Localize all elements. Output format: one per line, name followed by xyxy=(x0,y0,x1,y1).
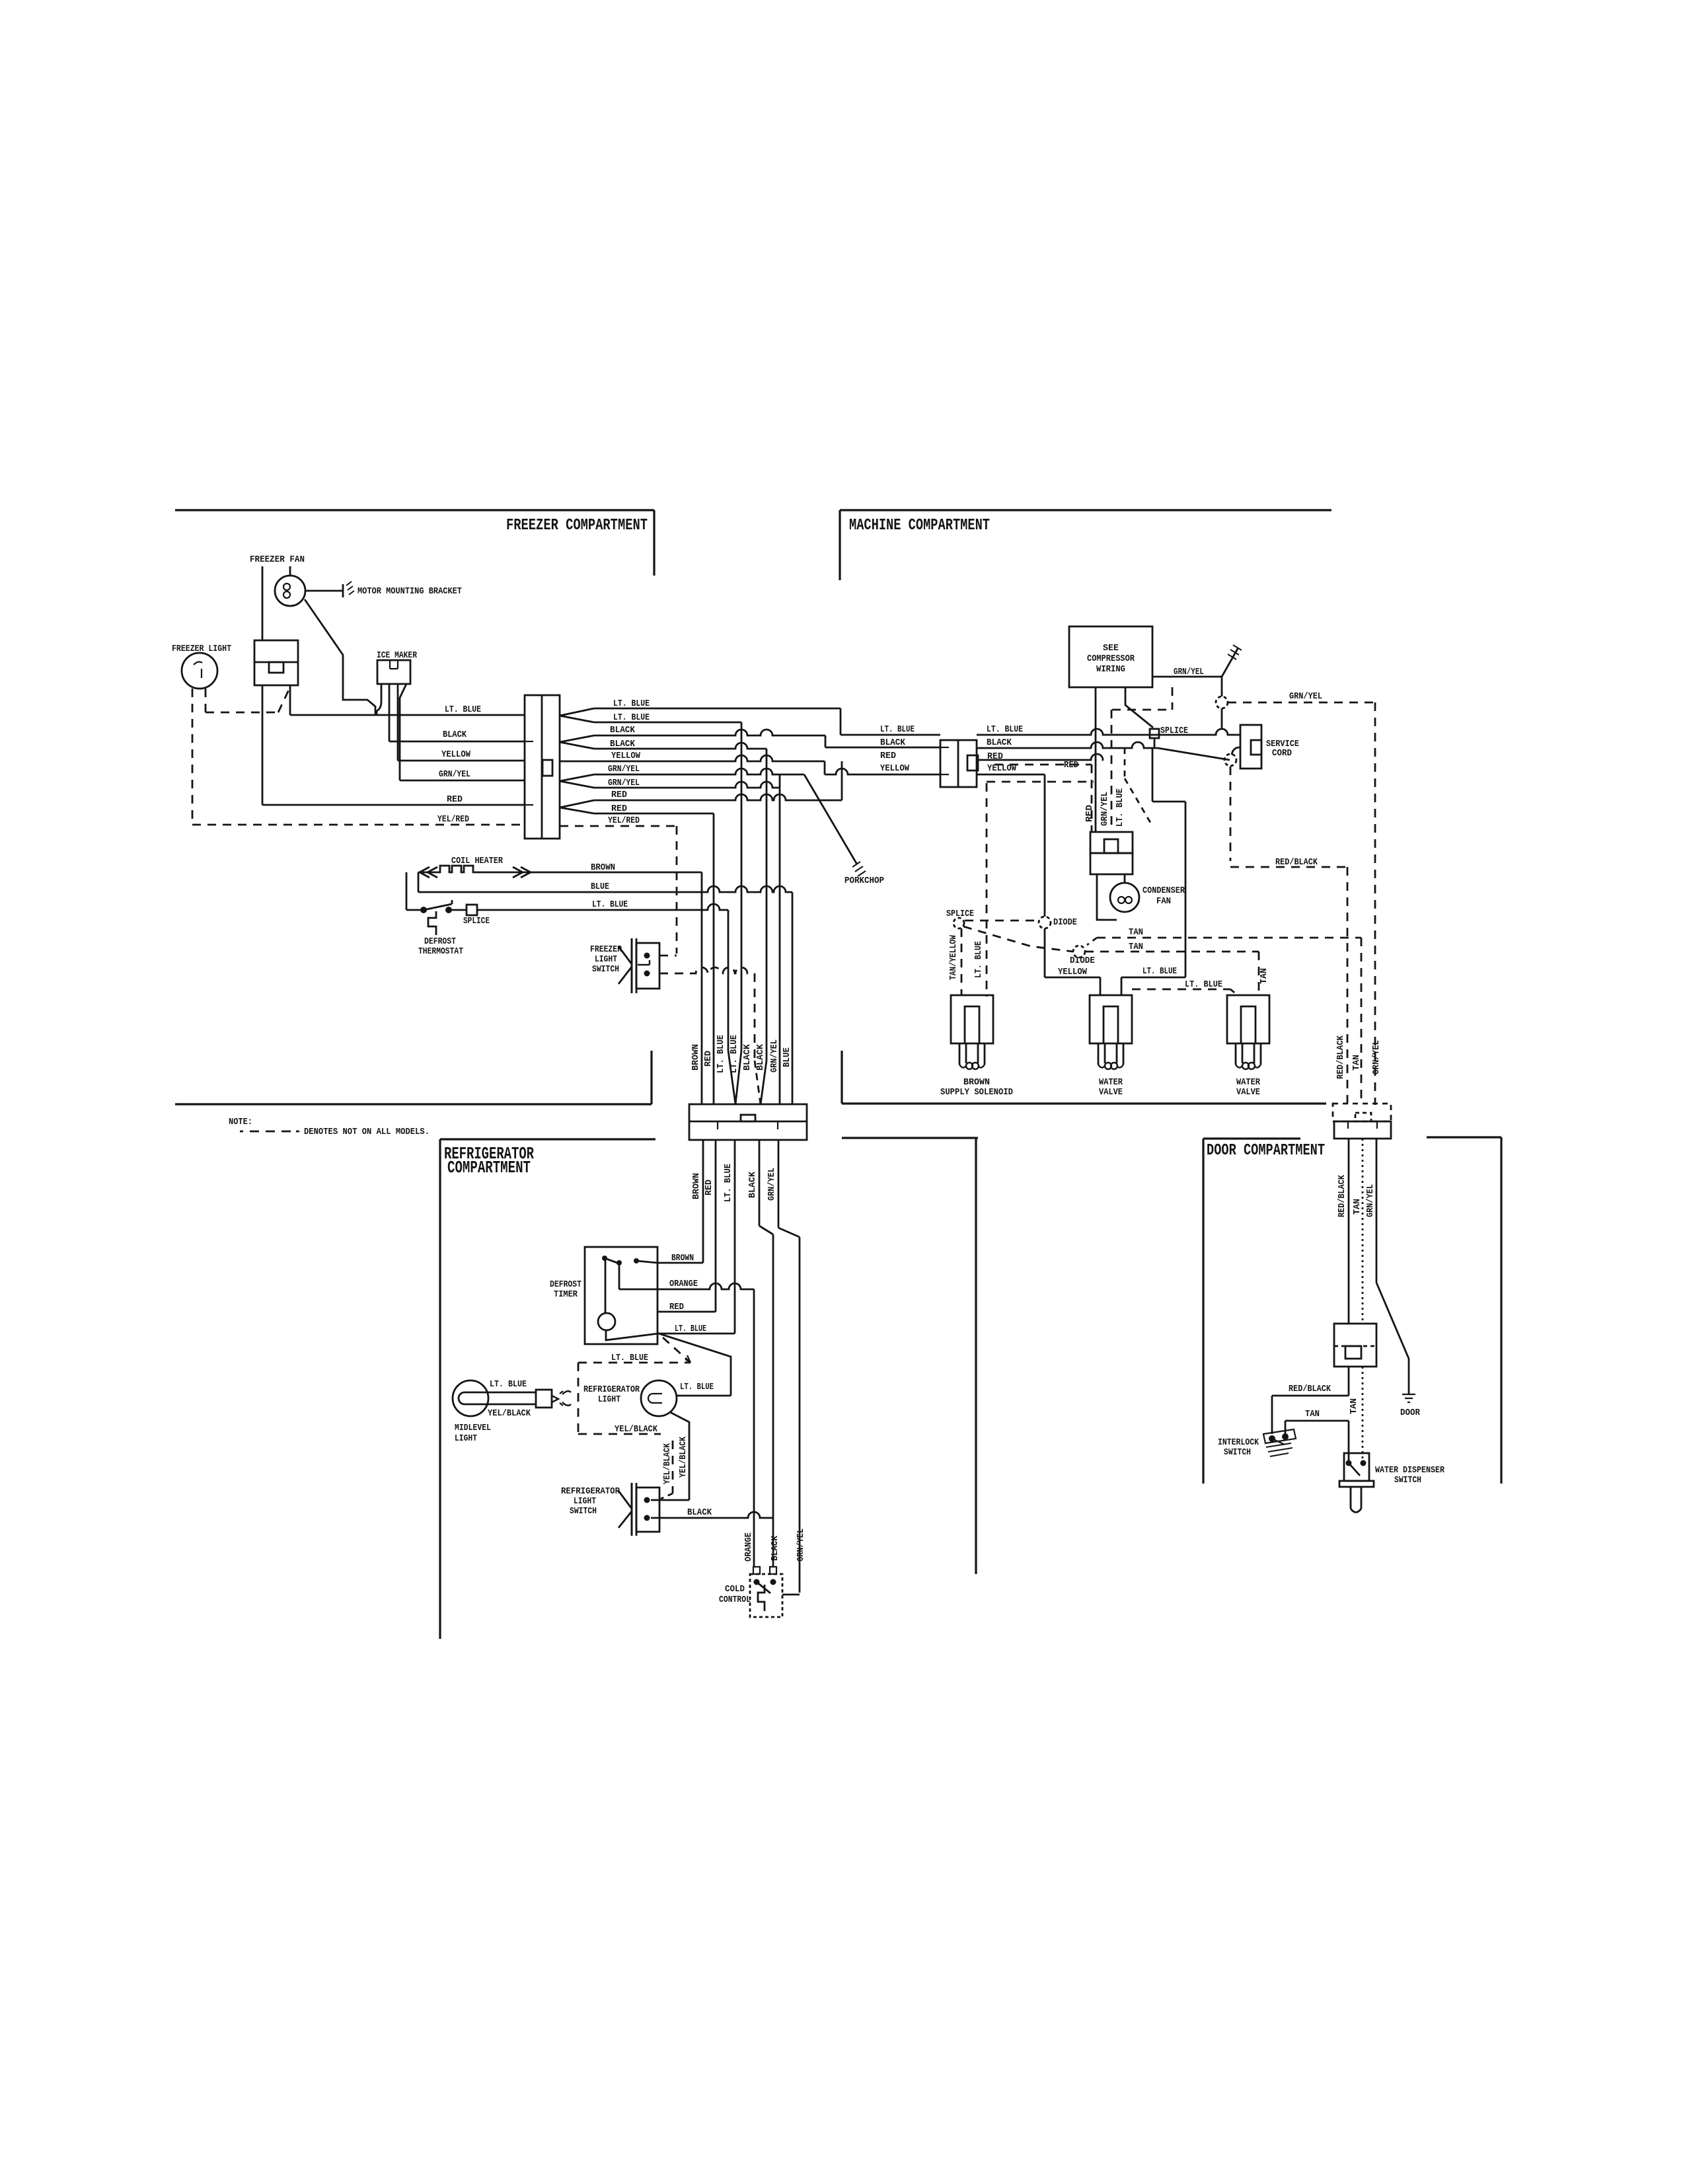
svg-text:CONTROL: CONTROL xyxy=(719,1595,751,1605)
svg-text:WATER: WATER xyxy=(1236,1077,1261,1088)
svg-text:INTERLOCK: INTERLOCK xyxy=(1218,1437,1259,1448)
svg-text:GRN/YEL: GRN/YEL xyxy=(1289,691,1322,702)
svg-text:TIMER: TIMER xyxy=(554,1289,578,1300)
svg-text:LIGHT: LIGHT xyxy=(574,1496,596,1507)
svg-text:GRN/YEL: GRN/YEL xyxy=(767,1168,777,1201)
svg-text:BROWN: BROWN xyxy=(691,1173,702,1199)
svg-text:LIGHT: LIGHT xyxy=(455,1433,477,1444)
svg-text:DOOR COMPARTMENT: DOOR COMPARTMENT xyxy=(1207,1142,1325,1160)
svg-text:BLACK: BLACK xyxy=(443,730,467,740)
svg-text:RED: RED xyxy=(611,790,627,800)
svg-text:LT. BLUE: LT. BLUE xyxy=(445,704,481,715)
svg-text:RED: RED xyxy=(880,751,896,761)
svg-text:BLACK: BLACK xyxy=(747,1171,758,1198)
svg-text:YEL/BLACK: YEL/BLACK xyxy=(662,1443,673,1484)
svg-text:ORANGE: ORANGE xyxy=(743,1532,754,1562)
svg-text:DIODE: DIODE xyxy=(1070,956,1095,966)
svg-text:YELLOW: YELLOW xyxy=(987,763,1017,774)
svg-text:LT. BLUE: LT. BLUE xyxy=(1142,966,1177,977)
svg-text:LT. BLUE: LT. BLUE xyxy=(880,724,915,735)
svg-text:LT. BLUE: LT. BLUE xyxy=(973,941,984,978)
svg-text:BLACK: BLACK xyxy=(880,737,906,748)
svg-text:RED/BLACK: RED/BLACK xyxy=(1289,1384,1331,1394)
svg-text:PORKCHOP: PORKCHOP xyxy=(844,876,884,886)
svg-text:LT. BLUE: LT. BLUE xyxy=(592,899,628,910)
svg-text:TAN: TAN xyxy=(1351,1055,1362,1071)
svg-text:FREEZER: FREEZER xyxy=(590,944,622,955)
svg-text:SPLICE: SPLICE xyxy=(463,916,490,926)
svg-text:RED: RED xyxy=(703,1051,714,1067)
svg-text:LIGHT: LIGHT xyxy=(598,1394,620,1405)
svg-text:REFRIGERATOR: REFRIGERATOR xyxy=(583,1384,640,1395)
svg-text:TAN/YELLOW: TAN/YELLOW xyxy=(948,935,959,980)
svg-text:TAN: TAN xyxy=(1352,1199,1363,1215)
svg-text:COLD: COLD xyxy=(725,1584,745,1595)
svg-text:GRN/YEL: GRN/YEL xyxy=(1365,1184,1376,1217)
svg-text:THERMOSTAT: THERMOSTAT xyxy=(418,946,463,957)
svg-text:DENOTES NOT ON ALL MODELS.: DENOTES NOT ON ALL MODELS. xyxy=(304,1127,430,1137)
svg-text:CONDENSER: CONDENSER xyxy=(1142,885,1185,896)
svg-text:TAN: TAN xyxy=(1259,968,1269,984)
svg-text:BLACK: BLACK xyxy=(742,1043,753,1071)
svg-text:YELLOW: YELLOW xyxy=(441,749,471,760)
svg-text:BLACK: BLACK xyxy=(770,1535,780,1561)
svg-text:LT. BLUE: LT. BLUE xyxy=(1185,979,1222,990)
svg-text:GRN/YEL: GRN/YEL xyxy=(769,1039,780,1073)
svg-text:BLACK: BLACK xyxy=(755,1043,766,1071)
svg-text:TAN: TAN xyxy=(1129,927,1143,938)
svg-text:SPLICE: SPLICE xyxy=(1160,726,1188,736)
svg-text:YEL/RED: YEL/RED xyxy=(608,815,640,826)
svg-text:ORANGE: ORANGE xyxy=(669,1279,698,1289)
svg-text:YELLOW: YELLOW xyxy=(880,763,910,774)
svg-text:MOTOR MOUNTING BRACKET: MOTOR MOUNTING BRACKET xyxy=(357,586,462,597)
svg-text:RED: RED xyxy=(447,794,463,805)
svg-text:BLACK: BLACK xyxy=(987,737,1012,748)
svg-text:LT. BLUE: LT. BLUE xyxy=(611,1353,648,1363)
svg-text:SWITCH: SWITCH xyxy=(1394,1475,1421,1486)
svg-text:FREEZER FAN: FREEZER FAN xyxy=(250,554,305,565)
svg-text:YELLOW: YELLOW xyxy=(1058,967,1088,977)
svg-text:FAN: FAN xyxy=(1156,896,1171,907)
svg-text:RED/BLACK: RED/BLACK xyxy=(1335,1035,1346,1079)
svg-text:WATER DISPENSER: WATER DISPENSER xyxy=(1375,1465,1444,1476)
svg-text:YEL/BLACK: YEL/BLACK xyxy=(678,1437,689,1478)
svg-text:LT. BLUE: LT. BLUE xyxy=(1115,788,1125,827)
svg-text:LT. BLUE: LT. BLUE xyxy=(723,1164,733,1202)
svg-text:FREEZER COMPARTMENT: FREEZER COMPARTMENT xyxy=(506,517,648,535)
svg-text:YEL/BLACK: YEL/BLACK xyxy=(615,1424,658,1435)
svg-text:LIGHT: LIGHT xyxy=(595,954,617,965)
svg-text:DEFROST: DEFROST xyxy=(550,1279,581,1290)
svg-text:BLACK: BLACK xyxy=(687,1507,712,1518)
svg-text:SWITCH: SWITCH xyxy=(570,1506,597,1517)
svg-text:LT. BLUE: LT. BLUE xyxy=(680,1382,714,1392)
svg-text:GRN/YEL: GRN/YEL xyxy=(1100,792,1110,826)
svg-text:SUPPLY SOLENOID: SUPPLY SOLENOID xyxy=(940,1087,1013,1098)
svg-text:LT. BLUE: LT. BLUE xyxy=(716,1035,726,1073)
svg-text:VALVE: VALVE xyxy=(1236,1087,1260,1098)
svg-text:CORD: CORD xyxy=(1272,748,1292,759)
svg-text:MIDLEVEL: MIDLEVEL xyxy=(455,1423,491,1433)
svg-text:WIRING: WIRING xyxy=(1096,664,1125,675)
svg-text:NOTE:: NOTE: xyxy=(229,1117,252,1127)
svg-text:WATER: WATER xyxy=(1099,1077,1123,1088)
svg-text:COMPRESSOR: COMPRESSOR xyxy=(1087,654,1135,664)
svg-text:GRN/YEL: GRN/YEL xyxy=(439,769,470,780)
svg-text:DIODE: DIODE xyxy=(1053,917,1077,928)
svg-text:TAN: TAN xyxy=(1305,1409,1320,1419)
svg-text:MACHINE COMPARTMENT: MACHINE COMPARTMENT xyxy=(849,517,990,535)
svg-text:ICE MAKER: ICE MAKER xyxy=(377,650,417,661)
svg-text:VALVE: VALVE xyxy=(1099,1087,1123,1098)
svg-text:BROWN: BROWN xyxy=(691,1044,701,1071)
svg-text:RED/BLACK: RED/BLACK xyxy=(1337,1175,1347,1217)
svg-text:BLUE: BLUE xyxy=(591,882,609,892)
svg-text:SWITCH: SWITCH xyxy=(592,964,619,975)
svg-text:BLACK: BLACK xyxy=(610,725,636,735)
svg-text:YEL/BLACK: YEL/BLACK xyxy=(488,1408,531,1419)
svg-text:BLUE: BLUE xyxy=(782,1047,792,1067)
svg-text:BROWN: BROWN xyxy=(963,1077,990,1088)
svg-text:RED: RED xyxy=(704,1180,714,1195)
svg-text:YEL/RED: YEL/RED xyxy=(437,814,469,825)
svg-text:TAN: TAN xyxy=(1349,1398,1359,1414)
svg-text:GRN/YEL: GRN/YEL xyxy=(608,764,640,774)
svg-text:SWITCH: SWITCH xyxy=(1224,1447,1251,1458)
svg-text:REFRIGERATOR: REFRIGERATOR xyxy=(561,1486,620,1497)
svg-text:RED: RED xyxy=(1084,805,1095,822)
svg-text:SEE: SEE xyxy=(1103,643,1119,654)
svg-text:DOOR: DOOR xyxy=(1400,1408,1421,1418)
svg-text:YELLOW: YELLOW xyxy=(611,751,641,761)
svg-text:COMPARTMENT: COMPARTMENT xyxy=(447,1158,531,1178)
svg-text:GRN/YEL: GRN/YEL xyxy=(796,1528,806,1562)
svg-text:GRN/YEL: GRN/YEL xyxy=(1371,1040,1382,1074)
svg-text:LT. BLUE: LT. BLUE xyxy=(987,724,1023,735)
svg-text:DEFROST: DEFROST xyxy=(424,936,456,947)
svg-text:LT. BLUE: LT. BLUE xyxy=(490,1379,527,1390)
